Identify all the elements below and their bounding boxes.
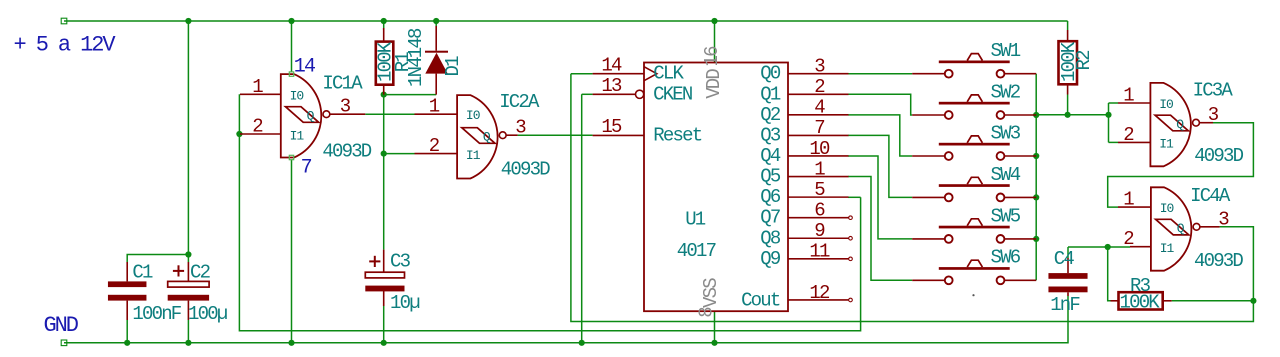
- svg-text:3: 3: [1218, 208, 1229, 230]
- svg-text:15: 15: [601, 116, 622, 138]
- svg-text:Q0: Q0: [760, 63, 781, 85]
- svg-text:VSS: VSS: [700, 278, 722, 308]
- svg-text:10: 10: [809, 138, 830, 160]
- svg-text:D1: D1: [442, 56, 464, 77]
- svg-text:I0: I0: [1159, 97, 1173, 112]
- svg-text:I0: I0: [1160, 201, 1174, 216]
- svg-text:VDD: VDD: [703, 69, 725, 99]
- svg-text:I1: I1: [1159, 137, 1174, 152]
- svg-text:2: 2: [814, 76, 825, 98]
- svg-text:1: 1: [814, 158, 825, 180]
- svg-text:2: 2: [1123, 228, 1134, 250]
- svg-text:9: 9: [814, 220, 825, 242]
- svg-text:6: 6: [814, 199, 825, 221]
- svg-text:2: 2: [252, 116, 263, 138]
- svg-text:SW2: SW2: [991, 81, 1021, 103]
- svg-text:4093D: 4093D: [1194, 250, 1243, 272]
- svg-text:7: 7: [301, 157, 312, 180]
- svg-text:Q: Q: [483, 129, 491, 144]
- svg-text:SW4: SW4: [991, 164, 1021, 186]
- svg-text:14: 14: [294, 56, 315, 79]
- svg-text:3: 3: [1208, 104, 1219, 126]
- svg-text:3: 3: [814, 56, 825, 78]
- svg-text:14: 14: [601, 55, 622, 77]
- svg-text:1nF: 1nF: [1050, 294, 1080, 316]
- svg-text:Cout: Cout: [741, 289, 780, 311]
- svg-text:4017: 4017: [677, 240, 716, 262]
- svg-text:I1: I1: [1160, 241, 1175, 256]
- svg-text:1: 1: [429, 96, 440, 118]
- svg-text:IC1A: IC1A: [322, 73, 363, 95]
- svg-text:3: 3: [515, 117, 526, 139]
- svg-text:2: 2: [429, 135, 440, 157]
- svg-text:I0: I0: [290, 88, 304, 103]
- svg-text:4093D: 4093D: [322, 140, 371, 162]
- svg-text:11: 11: [809, 241, 830, 263]
- svg-text:IC2A: IC2A: [499, 91, 540, 113]
- svg-text:12: 12: [809, 282, 830, 304]
- svg-text:R3: R3: [1130, 275, 1151, 297]
- svg-text:I0: I0: [466, 108, 480, 123]
- svg-text:Q: Q: [307, 108, 315, 123]
- svg-text:Q6: Q6: [760, 186, 781, 208]
- svg-text:Q2: Q2: [760, 104, 781, 126]
- svg-text:10µ: 10µ: [390, 292, 420, 314]
- svg-text:Reset: Reset: [653, 124, 701, 146]
- svg-text:SW6: SW6: [991, 247, 1021, 269]
- svg-text:Q1: Q1: [760, 83, 781, 105]
- svg-text:Q4: Q4: [760, 145, 781, 167]
- svg-text:4093D: 4093D: [501, 158, 550, 180]
- svg-text:SW1: SW1: [991, 40, 1021, 62]
- svg-text:16: 16: [701, 46, 723, 67]
- svg-text:100µ: 100µ: [188, 303, 228, 325]
- svg-text:I1: I1: [290, 128, 305, 143]
- svg-text:8: 8: [696, 307, 718, 318]
- svg-text:4093D: 4093D: [1194, 145, 1243, 167]
- svg-text:SW3: SW3: [991, 122, 1021, 144]
- svg-text:+ 5 a 12V: + 5 a 12V: [14, 33, 117, 58]
- svg-text:C1: C1: [132, 262, 153, 284]
- svg-text:3: 3: [340, 96, 351, 118]
- svg-text:7: 7: [814, 117, 824, 139]
- svg-text:1: 1: [1123, 189, 1134, 211]
- svg-text:1: 1: [1123, 85, 1134, 107]
- svg-text:4: 4: [814, 97, 825, 119]
- svg-text:Q8: Q8: [760, 227, 781, 249]
- svg-text:I1: I1: [466, 148, 481, 163]
- svg-text:2: 2: [1123, 124, 1134, 146]
- svg-text:U1: U1: [685, 208, 706, 230]
- svg-text:100nF: 100nF: [132, 303, 181, 325]
- svg-text:Q: Q: [1177, 221, 1185, 236]
- svg-text:CKEN: CKEN: [653, 83, 692, 105]
- svg-text:GND: GND: [44, 313, 79, 338]
- svg-text:C2: C2: [190, 262, 211, 284]
- svg-text:R2: R2: [1073, 50, 1095, 71]
- svg-text:Q: Q: [1176, 117, 1184, 132]
- svg-text:Q3: Q3: [760, 124, 781, 146]
- svg-text:Q9: Q9: [760, 248, 781, 270]
- svg-text:C4: C4: [1054, 248, 1075, 270]
- svg-text:Q5: Q5: [760, 166, 781, 188]
- svg-text:CLK: CLK: [653, 63, 684, 85]
- svg-text:IC4A: IC4A: [1190, 185, 1231, 207]
- svg-text:13: 13: [601, 75, 622, 97]
- svg-text:SW5: SW5: [991, 205, 1021, 227]
- svg-text:1N4148: 1N4148: [405, 28, 427, 87]
- svg-text:Q7: Q7: [760, 207, 780, 229]
- svg-text:C3: C3: [390, 250, 411, 272]
- svg-text:5: 5: [814, 179, 825, 201]
- svg-text:IC3A: IC3A: [1193, 80, 1234, 102]
- svg-text:1: 1: [252, 76, 263, 98]
